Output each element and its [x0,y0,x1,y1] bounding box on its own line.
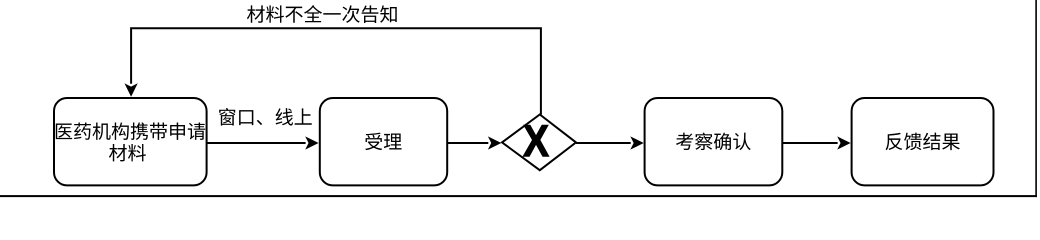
edge label 窗口、线上 [219,108,312,126]
box2 label 受理 [365,133,401,150]
process box4 反馈结果 [852,98,994,185]
feedback wire gateway top to box1 top [131,28,541,114]
process box2 受理 [320,98,447,185]
page bottom border [0,195,1037,197]
wire box2 to gateway [447,142,488,144]
gateway X symbol [523,125,548,156]
arrowhead into box2 [305,136,318,149]
gateway X diamond [502,115,576,171]
process box1 医药机构携带申请材料 [54,98,207,185]
box1 label line1 医药机构携带申请 [56,122,205,140]
box1 label line2 材料 [109,144,146,161]
feedback label 材料不全一次告知 [247,5,397,23]
arrowhead into box3 [630,136,643,149]
arrowhead into box1 top (feedback) [124,83,137,96]
wire box3 to box4 [782,142,837,144]
arrowhead into box4 [837,136,850,149]
arrowhead into gateway left [488,136,501,149]
box3 label 考察确认 [676,133,751,151]
page right border [1035,0,1037,197]
wire box1 to box2 [207,142,306,144]
wire gateway to box3 [576,142,631,144]
box4 label 反馈结果 [886,133,960,151]
process box3 考察确认 [645,98,783,185]
